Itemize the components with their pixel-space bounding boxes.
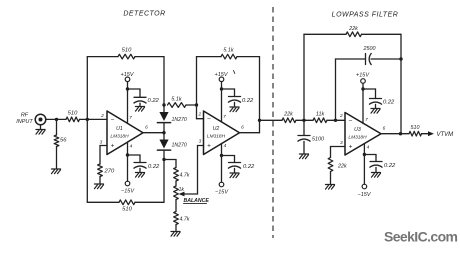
wire V+ down to U3 pin7 (362, 89, 364, 124)
wire V- to bypass cap C8 (364, 155, 376, 162)
resistor R11 22k (282, 118, 296, 123)
svg-text:2: 2 (339, 113, 343, 119)
svg-text:VTVM: VTVM (437, 132, 454, 138)
label 56 (60, 138, 67, 144)
label 510 (R15) (411, 125, 420, 131)
svg-text:11k: 11k (316, 112, 325, 118)
svg-text:INPUT: INPUT (16, 119, 33, 125)
ground below C1 (136, 107, 145, 112)
wire U3 pin3 stub (331, 146, 346, 148)
svg-text:3: 3 (100, 140, 103, 146)
svg-text:1N270: 1N270 (172, 117, 187, 123)
label 11k (R13) (316, 112, 325, 118)
svg-text:0.22: 0.22 (148, 164, 160, 170)
pin 3 label U2 (199, 139, 202, 145)
svg-text:+15V: +15V (121, 72, 135, 78)
wire D1 to output node (163, 124, 165, 133)
svg-text:7: 7 (129, 115, 132, 121)
wire U2 feedback top right (237, 56, 260, 58)
wire node C to diode D1 (163, 105, 165, 112)
wire node D down to bottom rail (163, 160, 165, 203)
label +15V U1 (121, 72, 135, 78)
node J junction (399, 132, 402, 135)
label VTVM (437, 132, 454, 138)
wire U2 feedback down to output (259, 57, 261, 121)
pin 2 label U3 (339, 113, 343, 119)
wire pot to R7 (175, 200, 177, 212)
svg-text:4.7k: 4.7k (180, 217, 190, 223)
svg-text:0.22: 0.22 (148, 98, 160, 104)
terminal -15V U3 (362, 184, 367, 189)
wire node G up to 22k feedback (303, 34, 305, 120)
ground below C2 (136, 173, 145, 178)
label 0.22 (C1) (148, 98, 160, 104)
svg-text:7: 7 (223, 114, 226, 120)
wire node E down to U2 pin2 (197, 105, 204, 119)
label 5.1k (R10) (223, 48, 233, 54)
svg-text:SeekIC.com: SeekIC.com (384, 229, 458, 245)
wire R9 to node E (186, 104, 197, 106)
junction U2 V+ node (220, 87, 223, 90)
wire U2 pin4 down (221, 144, 223, 156)
capacitor C7 0.22 bypass (369, 99, 382, 105)
wire V+ to bypass cap C3 (222, 89, 235, 97)
svg-text:7: 7 (365, 117, 368, 123)
label BALANCE (184, 198, 210, 204)
wire node G down to C5 (303, 120, 305, 135)
node E junction (195, 103, 198, 106)
wire V- to bypass cap C2 (128, 155, 141, 163)
label 22k (R11) (283, 112, 293, 118)
pin 6 label U3 (383, 126, 386, 132)
wire D2 to node D (163, 151, 165, 160)
svg-text:−: − (349, 118, 353, 125)
terminal -15V U1 (125, 181, 130, 186)
pin 2 label U2 (197, 112, 201, 118)
svg-text:4.7k: 4.7k (180, 173, 190, 179)
pin 4 label U1 (130, 144, 133, 150)
label 0.22 (C2) (148, 164, 160, 170)
resistor R5 4.7k (174, 168, 179, 182)
wire V+ down to U1 pin7 (127, 89, 129, 123)
svg-text:5.1k: 5.1k (223, 48, 233, 54)
label 510 (R8) (122, 207, 132, 213)
svg-text:BALANCE: BALANCE (184, 198, 210, 204)
ground below C5 (300, 154, 309, 159)
op-amp U3 LM318H (345, 113, 381, 156)
wire R5 to pot (175, 181, 177, 186)
ground at RF connector (36, 130, 45, 135)
resistor R13 11k (313, 118, 327, 123)
label 510 (R3) (122, 48, 132, 54)
svg-text:270: 270 (104, 169, 115, 175)
pin 6 label U2 (241, 125, 244, 131)
diode D2 1N270 (157, 140, 170, 151)
svg-text:+15V: +15V (356, 73, 370, 79)
wire V+ to bypass cap C7 (363, 89, 376, 99)
wire V+ down to U2 pin7 (221, 89, 223, 122)
svg-text:0.22: 0.22 (384, 163, 396, 169)
svg-text:22k: 22k (283, 112, 293, 118)
capacitor C2 0.22 bypass (134, 163, 147, 169)
label 22k (R14) (337, 164, 347, 170)
ground below C4 (230, 173, 239, 178)
wire C1 to ground (139, 103, 141, 106)
potentiometer R6 1k (174, 186, 179, 200)
label 0.22 (C8) (384, 163, 396, 169)
resistor R12 22k feedback (346, 32, 362, 37)
svg-text:RF: RF (21, 113, 29, 119)
wire feedback down to node C (163, 57, 165, 105)
resistor R15 510 output (409, 131, 422, 136)
op-amp U1 LM318H (107, 111, 143, 155)
label 1N270 (D2) (172, 143, 187, 149)
svg-text:0.22: 0.22 (242, 98, 254, 104)
wire +15V U1 terminal to junction (127, 82, 129, 89)
terminal -15V U2 (219, 182, 224, 187)
svg-text:510: 510 (122, 48, 132, 54)
svg-text:510: 510 (122, 207, 132, 213)
pin 2 label U1 (100, 113, 104, 119)
svg-text:4: 4 (367, 145, 370, 151)
svg-text:0.22: 0.22 (383, 100, 395, 106)
wire V- node to terminal (127, 155, 129, 181)
label -15V U3 (358, 192, 372, 198)
wire R14 to ground (330, 172, 332, 185)
svg-text:2: 2 (197, 112, 201, 118)
svg-text:−: − (111, 117, 115, 124)
wire C7 to ground (375, 104, 377, 108)
resistor R14 22k (328, 158, 333, 172)
wire U2 pin6 output (240, 120, 260, 132)
wire feedback down to node H (400, 34, 402, 59)
wire 22k feedback top left (304, 33, 346, 35)
wire C6 left down to node I (335, 59, 337, 120)
label -15V U1 (121, 189, 135, 195)
label 270 (104, 169, 115, 175)
wire C4 to ground (234, 168, 236, 172)
junction U1 V+ node (126, 87, 129, 90)
resistor R8 510 bottom (119, 200, 135, 205)
svg-text:U1: U1 (116, 126, 123, 132)
capacitor C5 5100 (298, 136, 311, 142)
wire R11 to node G (296, 119, 313, 121)
node D junction (162, 158, 165, 161)
wire +15V U2 terminal to junction (221, 82, 223, 89)
wire connector to node A (46, 118, 66, 120)
label 0.22 (C7) (383, 100, 395, 106)
svg-text:−15V: −15V (358, 192, 372, 198)
svg-text:LM318H: LM318H (110, 134, 129, 140)
svg-text:0.22: 0.22 (243, 164, 255, 170)
pin 4 label U3 (367, 145, 370, 151)
wire node A down to R2 (56, 119, 58, 135)
svg-text:22k: 22k (337, 164, 347, 170)
RF INPUT label (16, 113, 33, 125)
ground below R14 (326, 185, 335, 190)
wire node E up to feedback (196, 57, 198, 105)
junction U3 V- node (363, 153, 366, 156)
wire 22k feedback top right (362, 33, 402, 35)
resistor R3 510 feedback U1 (118, 54, 135, 59)
wire pin3 down to R4 (99, 146, 101, 165)
pin 3 label U1 (100, 140, 103, 146)
svg-text:1N270: 1N270 (172, 143, 187, 149)
terminal +15V U3 (361, 79, 366, 84)
wire U3 pin6 output (381, 133, 409, 135)
svg-text:+: + (349, 144, 353, 151)
junction U1 V- node (126, 153, 129, 156)
wire U3 pin4 down (363, 144, 365, 155)
wire bottom rail up to node B (86, 119, 88, 202)
ground below R7 (171, 232, 180, 237)
label 2500 (C6) (363, 46, 376, 52)
label 4.7k (R5) (180, 173, 190, 179)
pin 4 label U2 (224, 143, 227, 149)
wire node F to filter section (260, 119, 283, 121)
wire C5 to ground (303, 141, 305, 153)
label 5.1k (R9) (171, 97, 181, 103)
svg-text:5100: 5100 (312, 137, 324, 143)
wire bottom rail left segment (87, 201, 119, 203)
wire U2 feedback top left (197, 56, 222, 58)
svg-text:2: 2 (100, 113, 104, 119)
svg-text:LOWPASS FILTER: LOWPASS FILTER (332, 12, 399, 19)
node C junction (162, 103, 165, 106)
wire R2 to ground (56, 147, 58, 169)
svg-text:56: 56 (60, 138, 67, 144)
svg-text:+: + (207, 143, 211, 150)
wire U2 V- node to terminal (221, 156, 223, 183)
wire U1 pin6 to diode column (143, 132, 164, 134)
svg-text:6: 6 (145, 125, 148, 131)
pin 6 label U1 (145, 125, 148, 131)
svg-text:6: 6 (383, 126, 386, 132)
section label DETECTOR (123, 11, 165, 18)
pin 7 label U3 (365, 117, 368, 123)
terminal +15V U2 (219, 77, 224, 82)
svg-text:U2: U2 (213, 126, 220, 132)
svg-text:4: 4 (130, 144, 133, 150)
capacitor C6 2500 (366, 53, 372, 65)
wire 2500 cap left segment (336, 58, 366, 60)
svg-text:LM318H: LM318H (207, 134, 226, 140)
svg-text:DETECTOR: DETECTOR (123, 11, 165, 18)
resistor R1 510 series input (66, 117, 80, 122)
wire feedback top left segment (87, 56, 118, 58)
capacitor C3 0.22 bypass (228, 97, 241, 103)
wire U3 V- node to terminal (363, 155, 365, 185)
ground below R4 (95, 184, 104, 189)
section label LOWPASS FILTER (332, 12, 399, 19)
wire node B up to feedback (86, 57, 88, 120)
resistor R4 270 (98, 164, 103, 177)
wire node H down to node J (400, 59, 402, 134)
wire output node to diode D2 (163, 133, 165, 140)
svg-text:−15V: −15V (121, 189, 135, 195)
label 0.22 (C3) (242, 98, 254, 104)
arrow to VTVM (428, 131, 434, 136)
wire V- to bypass cap C4 (222, 156, 235, 163)
label -15V U2 (215, 190, 229, 196)
node A junction (55, 118, 58, 121)
node I junction (334, 119, 337, 122)
svg-text:3: 3 (340, 140, 343, 146)
ground below C7 (371, 109, 380, 114)
connector J1 RF input (35, 114, 46, 125)
wire 2500 cap right segment (371, 58, 401, 60)
ground below R2 (52, 169, 61, 174)
label +15V U2 (215, 72, 229, 78)
wire wiper up to U2 pin3 (198, 146, 204, 195)
label 510 (R1) (68, 111, 78, 117)
node H junction (399, 57, 402, 60)
resistor R9 5.1k (168, 103, 187, 108)
tick mark after +15V U2 (234, 71, 235, 74)
wire R13 to U3 pin2 (327, 119, 345, 121)
svg-text:3: 3 (199, 139, 202, 145)
capacitor C8 0.22 bypass (370, 162, 383, 168)
junction U3 V+ node (361, 87, 364, 90)
resistor R10 5.1k feedback (221, 54, 237, 59)
label 1N270 (D1) (172, 117, 187, 123)
svg-text:+: + (111, 143, 115, 150)
diode D1 1N270 (157, 112, 170, 123)
svg-text:2500: 2500 (363, 46, 376, 52)
svg-text:−15V: −15V (215, 190, 229, 196)
wire U1 pin4 down (127, 142, 129, 155)
label 1k (R6) (179, 187, 185, 193)
wire U1 pin3 stub (100, 145, 107, 147)
wire +15V U3 terminal to junction (362, 83, 364, 89)
wire R15 to VTVM arrow (422, 133, 430, 135)
output node U1 junction (162, 131, 165, 134)
watermark SeekIC.com (384, 229, 458, 245)
wire R1 to node B (80, 118, 108, 120)
svg-text:510: 510 (68, 111, 78, 117)
node B junction (86, 118, 89, 121)
wire R7 to ground (175, 225, 177, 232)
wire connector to ground (40, 125, 42, 129)
wire R4 to ground (99, 177, 101, 184)
resistor R7 4.7k (174, 212, 179, 225)
svg-text:U3: U3 (354, 127, 361, 133)
svg-text:4: 4 (224, 143, 227, 149)
label 4.7k (R7) (180, 217, 190, 223)
label 22k (R12) (348, 26, 358, 32)
wire node D to balance chain (164, 159, 176, 161)
wire pin3 down to R14 (330, 147, 332, 158)
svg-text:22k: 22k (348, 26, 358, 32)
pot wiper arrow (179, 192, 198, 197)
wire chain down to R5 (175, 160, 177, 168)
label +15V U3 (356, 73, 370, 79)
capacitor C1 0.22 bypass (134, 97, 147, 103)
label 5100 (C5) (312, 137, 324, 143)
svg-text:LM318H: LM318H (348, 135, 367, 141)
wire C8 to ground (375, 167, 377, 172)
pin 7 label U2 (223, 114, 226, 120)
junction U2 V- node (220, 154, 223, 157)
svg-text:5.1k: 5.1k (171, 97, 181, 103)
wire bottom rail right segment (135, 201, 164, 203)
wire feedback top right segment (135, 56, 164, 58)
label 0.22 (C4) (243, 164, 255, 170)
terminal +15V U1 (125, 77, 130, 82)
ground below C3 (230, 107, 239, 112)
resistor R2 56 shunt (54, 135, 59, 147)
svg-text:−: − (207, 116, 211, 123)
pin 7 label U1 (129, 115, 132, 121)
wire V+ to bypass cap C1 (128, 89, 141, 97)
svg-text:510: 510 (411, 125, 420, 131)
svg-text:+15V: +15V (215, 72, 229, 78)
node G junction (302, 119, 305, 122)
ground below C8 (372, 173, 381, 178)
capacitor C4 0.22 bypass (228, 163, 241, 169)
wire C3 to ground (234, 102, 236, 106)
op-amp U2 LM318H (204, 111, 240, 155)
svg-text:6: 6 (241, 125, 244, 131)
node F junction (258, 119, 261, 122)
pin 3 label U3 (340, 140, 343, 146)
wire C2 to ground (139, 168, 141, 172)
section divider dashed line (272, 7, 274, 238)
